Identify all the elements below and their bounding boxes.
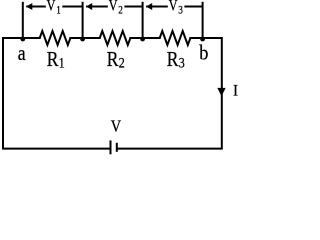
label I <box>233 82 238 99</box>
current arrow I <box>217 88 225 96</box>
svg-text:I: I <box>233 82 238 99</box>
label R2 <box>107 49 125 72</box>
svg-text:b: b <box>199 41 208 65</box>
svg-text:1: 1 <box>56 5 61 17</box>
wire between R2 and R3 <box>129 37 160 39</box>
label V1 <box>47 0 61 17</box>
label V3 <box>169 0 183 17</box>
label V (battery) <box>111 117 121 135</box>
voltage arrow V1 <box>26 3 82 10</box>
wire top right segment <box>189 37 221 39</box>
node b junction dot <box>200 37 205 42</box>
node A lead wire <box>22 2 24 38</box>
label b <box>199 41 208 65</box>
wire left side <box>2 37 110 150</box>
svg-text:R: R <box>47 49 59 72</box>
svg-text:R: R <box>167 49 179 72</box>
svg-text:2: 2 <box>119 54 125 70</box>
resistor R2 <box>100 31 131 45</box>
svg-text:3: 3 <box>179 54 185 70</box>
svg-text:V: V <box>109 0 118 15</box>
node J2 junction dot <box>140 37 145 42</box>
svg-text:V: V <box>47 0 56 15</box>
svg-text:R: R <box>107 49 119 72</box>
label R1 <box>47 49 65 72</box>
node a junction dot <box>20 37 25 42</box>
node J1 lead wire <box>82 2 84 38</box>
node J1 junction dot <box>80 37 85 42</box>
svg-text:3: 3 <box>178 5 183 17</box>
node B lead wire <box>202 2 204 38</box>
wire between R1 and R2 <box>69 37 100 39</box>
voltage arrow V3 <box>146 3 203 10</box>
battery cell V short plate <box>116 143 118 152</box>
node J2 lead wire <box>142 2 144 38</box>
wire bottom right segment <box>117 37 223 150</box>
svg-text:1: 1 <box>59 54 65 70</box>
svg-text:a: a <box>18 43 26 66</box>
svg-text:V: V <box>111 117 121 135</box>
label a <box>18 43 26 66</box>
svg-text:V: V <box>169 0 178 15</box>
resistor R3 <box>160 31 191 45</box>
label R3 <box>167 49 185 72</box>
wire top left segment <box>3 37 41 39</box>
battery cell V long plate <box>110 140 112 154</box>
voltage arrow V2 <box>86 3 143 10</box>
label V2 <box>109 0 123 17</box>
resistor R1 <box>40 31 71 45</box>
svg-text:2: 2 <box>118 5 123 17</box>
